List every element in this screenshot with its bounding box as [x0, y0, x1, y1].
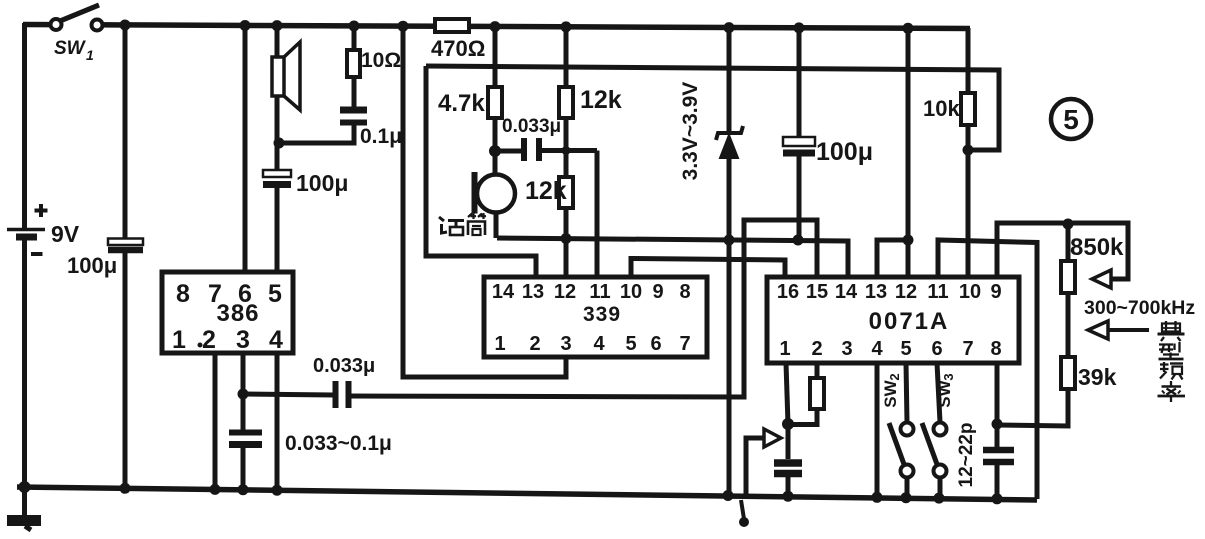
- svg-text:0.1μ: 0.1μ: [360, 125, 402, 148]
- svg-text:SW: SW: [881, 379, 900, 407]
- node 850k top: [1063, 219, 1074, 230]
- svg-text:100μ: 100μ: [67, 253, 117, 278]
- capacitor C5 0.033u: [336, 381, 349, 408]
- wire left battery rail: [22, 23, 27, 229]
- svg-text:5: 5: [1063, 104, 1079, 135]
- switch SW2: [889, 363, 914, 498]
- svg-text:SW: SW: [54, 38, 87, 59]
- svg-text:12k: 12k: [580, 86, 622, 114]
- resistor R3 470ohm: [435, 19, 469, 32]
- wire net A to 0071A pin15: [349, 220, 818, 397]
- svg-text:4: 4: [269, 326, 283, 354]
- node net C zener: [724, 235, 735, 246]
- arrow divider tap: [1092, 270, 1111, 288]
- svg-text:14: 14: [492, 281, 515, 303]
- capacitor C2 100u: [263, 143, 291, 272]
- label 39k: [1078, 364, 1117, 390]
- svg-text:15: 15: [806, 281, 828, 303]
- resistor R9 pin2: [788, 363, 824, 425]
- svg-text:339: 339: [583, 303, 621, 326]
- wire 339 pin10 to 0071A pin16: [631, 259, 785, 278]
- svg-text:2: 2: [811, 338, 822, 360]
- wire 386 pin2 to ground: [213, 353, 218, 489]
- label SW3: [935, 373, 956, 407]
- label 300-700kHz: [1084, 297, 1195, 319]
- label 12k lower: [525, 177, 567, 205]
- label 0.033u mic: [502, 116, 561, 137]
- label 100u: [67, 253, 117, 278]
- svg-text:0.033μ: 0.033μ: [313, 355, 375, 377]
- node 12k junction: [562, 146, 571, 155]
- node pin8/39k: [992, 419, 1003, 430]
- label 850k: [1070, 234, 1124, 261]
- wire 10k node to 0071A pin10: [966, 150, 971, 277]
- resistor R8 39k: [997, 357, 1075, 426]
- wire 0071A pin1 down: [786, 363, 788, 424]
- IC U3 0071A: [767, 277, 1019, 363]
- label 470ohm: [431, 36, 485, 61]
- battery B1 9V: [7, 204, 48, 254]
- wire mic output net C: [497, 238, 848, 277]
- svg-text:1: 1: [494, 333, 505, 355]
- wire 386 pin4 to ground: [275, 353, 280, 490]
- label 12k upper: [580, 86, 622, 114]
- svg-text:0.033μ: 0.033μ: [502, 116, 561, 137]
- trimmer arrow: [746, 429, 781, 496]
- IC U1 386: [162, 272, 293, 353]
- svg-text:4: 4: [871, 338, 883, 360]
- svg-text:10k: 10k: [923, 96, 960, 121]
- svg-text:9: 9: [652, 281, 663, 303]
- capacitor C8 pin1: [774, 424, 802, 497]
- svg-text:13: 13: [865, 281, 887, 303]
- resistor R5 12k upper: [559, 27, 573, 177]
- schematic number 5: [1051, 99, 1091, 139]
- node pin3/0.033 junction: [238, 389, 249, 400]
- label 0.033-0.1u: [285, 432, 392, 455]
- svg-text:3: 3: [236, 326, 250, 354]
- svg-text:2: 2: [202, 326, 216, 354]
- label 0.033u: [313, 355, 375, 377]
- svg-text:12: 12: [895, 281, 917, 303]
- svg-text:7: 7: [962, 338, 973, 360]
- wire mic box feedback to 339 pin13: [426, 66, 536, 277]
- label 10k: [923, 96, 960, 121]
- svg-text:2: 2: [529, 333, 540, 355]
- wire speaker to node: [275, 96, 280, 143]
- node pin1/pin2: [782, 418, 794, 430]
- svg-text:3: 3: [941, 373, 956, 380]
- node speaker/0.1u junction: [274, 138, 285, 149]
- svg-text:14: 14: [835, 281, 858, 303]
- wire pin9 to divider tap: [997, 223, 1128, 279]
- label 12-22p: [956, 423, 977, 488]
- svg-text:6: 6: [650, 333, 661, 355]
- wire 386 pin3 down: [241, 353, 246, 430]
- svg-text:11: 11: [927, 281, 948, 303]
- capacitor C3 0.1u: [279, 110, 367, 143]
- capacitor C6 0.033u mic: [495, 138, 597, 161]
- node pin12/13 tie: [903, 235, 914, 246]
- svg-text:10: 10: [959, 281, 981, 303]
- resistor R4 4.7k: [488, 26, 502, 152]
- svg-text:4.7k: 4.7k: [438, 90, 485, 117]
- svg-text:5: 5: [900, 338, 911, 360]
- svg-text:0071A: 0071A: [869, 308, 950, 335]
- node mic junction: [489, 145, 501, 157]
- label 9V: [51, 221, 80, 247]
- wire 0071A pin12 to rail: [906, 28, 911, 277]
- svg-text:12k: 12k: [525, 177, 567, 205]
- ground: [7, 489, 41, 530]
- svg-text:300~700kHz: 300~700kHz: [1084, 297, 1195, 319]
- capacitor C9 12-22p: [983, 450, 1014, 499]
- label dianxing pinlv: [1158, 321, 1186, 402]
- svg-text:1: 1: [779, 338, 790, 360]
- svg-text:5: 5: [625, 333, 636, 355]
- label SW2: [881, 373, 902, 407]
- label 3.3V-3.9V: [679, 82, 702, 181]
- svg-text:8: 8: [990, 338, 1001, 360]
- node net C 12k: [561, 233, 572, 244]
- label 4.7k: [438, 90, 485, 117]
- resistor R6 12k lower: [559, 177, 573, 277]
- wire bottom ground rail: [17, 487, 1037, 500]
- label 10ohm: [361, 49, 401, 72]
- svg-text:16: 16: [777, 281, 799, 303]
- wire 339 power rail drop: [403, 26, 566, 377]
- svg-text:13: 13: [522, 281, 544, 303]
- wire speaker branch: [275, 26, 280, 57]
- microphone MIC: [472, 151, 516, 238]
- label 0.1u: [360, 125, 402, 148]
- label SW1: [54, 38, 94, 63]
- wire 339 pin11 riser: [595, 151, 600, 278]
- capacitor C1 100u: [108, 239, 143, 489]
- svg-text:8: 8: [176, 280, 190, 308]
- switch SW1: [51, 5, 103, 31]
- svg-text:12: 12: [554, 281, 576, 303]
- svg-text:12~22p: 12~22p: [956, 423, 977, 488]
- svg-text:6: 6: [931, 338, 942, 360]
- node top rail junctions: [120, 20, 914, 34]
- capacitor C7 100u right: [783, 27, 815, 240]
- node 10k bottom: [963, 145, 974, 156]
- wire pin11 to ground right: [938, 240, 1037, 499]
- svg-text:0.033~0.1μ: 0.033~0.1μ: [285, 432, 392, 455]
- resistor R2 10k: [961, 28, 975, 150]
- wire 386 pin6 to rail: [243, 26, 248, 272]
- wire 0071A pin8 down: [995, 363, 1000, 447]
- speaker LS1: [272, 42, 300, 110]
- svg-text:2: 2: [887, 373, 902, 380]
- svg-text:470Ω: 470Ω: [431, 36, 485, 61]
- svg-text:1: 1: [86, 47, 94, 63]
- svg-text:39k: 39k: [1078, 364, 1117, 390]
- antenna terminal: [739, 500, 749, 527]
- svg-text:386: 386: [216, 300, 259, 327]
- wire net A pin3 to cap: [243, 394, 333, 395]
- svg-text:3: 3: [560, 333, 571, 355]
- svg-text:5: 5: [268, 280, 282, 308]
- svg-text:850k: 850k: [1070, 234, 1124, 261]
- node net C 100u: [793, 235, 804, 246]
- wire 100u battery branch: [123, 26, 128, 239]
- wire left battery rail lower: [22, 240, 27, 489]
- switch SW3: [922, 363, 947, 499]
- capacitor C4 0.033-0.1u: [229, 433, 262, 490]
- wire top supply rail: [23, 25, 970, 29]
- label 100u speaker: [296, 170, 348, 196]
- svg-text:9V: 9V: [51, 221, 80, 247]
- zener D1: [716, 27, 743, 497]
- svg-text:1: 1: [172, 326, 186, 354]
- IC U2 339: [484, 277, 707, 357]
- label mic huatong: [439, 213, 486, 235]
- svg-text:100μ: 100μ: [816, 138, 873, 166]
- wire net D feedback top: [426, 66, 999, 150]
- svg-text:4: 4: [593, 333, 605, 355]
- svg-text:10: 10: [620, 281, 642, 303]
- wire pin13 tie: [877, 240, 908, 277]
- svg-text:SW: SW: [935, 379, 954, 407]
- arrow typical frequency: [1088, 321, 1149, 339]
- svg-text:7: 7: [679, 333, 690, 355]
- svg-text:8: 8: [679, 281, 690, 303]
- node bottom rail junctions: [19, 481, 1003, 504]
- wire 0071A pin4 to ground: [875, 363, 880, 498]
- svg-text:100μ: 100μ: [296, 170, 348, 196]
- svg-text:3: 3: [841, 338, 852, 360]
- svg-text:3.3V~3.9V: 3.3V~3.9V: [679, 82, 702, 181]
- resistor R1 10ohm: [347, 26, 360, 107]
- svg-text:11: 11: [589, 281, 610, 303]
- resistor R7 850k: [1061, 224, 1075, 357]
- svg-text:9: 9: [990, 281, 1001, 303]
- svg-text:10Ω: 10Ω: [361, 49, 401, 72]
- label 100u right: [816, 138, 873, 166]
